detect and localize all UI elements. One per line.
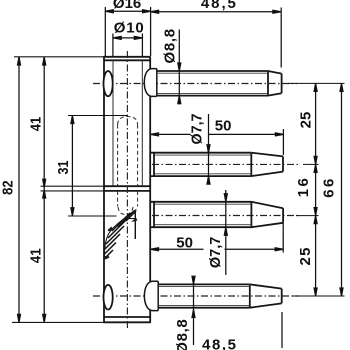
svg-text:Ø7,7: Ø7,7 xyxy=(189,114,206,145)
svg-text:82: 82 xyxy=(0,180,16,195)
svg-text:Ø7,7: Ø7,7 xyxy=(207,237,224,269)
svg-text:Ø10: Ø10 xyxy=(114,19,144,36)
svg-text:31: 31 xyxy=(55,161,72,175)
svg-text:48,5: 48,5 xyxy=(202,337,236,350)
svg-text:50: 50 xyxy=(176,235,193,252)
svg-text:50: 50 xyxy=(215,117,232,134)
svg-text:41: 41 xyxy=(28,117,45,132)
svg-text:25: 25 xyxy=(297,248,314,266)
svg-text:Ø16: Ø16 xyxy=(113,0,141,12)
svg-text:41: 41 xyxy=(28,248,45,263)
svg-text:66: 66 xyxy=(321,179,338,198)
svg-text:16: 16 xyxy=(295,178,312,197)
svg-text:Ø8,8: Ø8,8 xyxy=(161,29,178,64)
svg-text:Ø8,8: Ø8,8 xyxy=(174,319,191,350)
svg-text:25: 25 xyxy=(298,112,315,129)
svg-text:48,5: 48,5 xyxy=(201,0,236,12)
